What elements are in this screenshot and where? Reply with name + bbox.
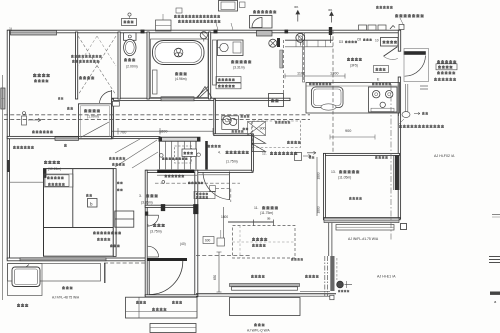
label boxed notes washroom xyxy=(216,77,241,89)
label yoshitsu door xyxy=(13,144,67,148)
svg-text:1800: 1800 xyxy=(317,172,321,179)
label IPA a xyxy=(294,5,298,9)
dim 900 b xyxy=(345,129,351,133)
fan washroom xyxy=(269,39,277,47)
svg-text:(3.31m): (3.31m) xyxy=(233,66,245,70)
label sink note xyxy=(309,83,331,85)
wall corridor south xyxy=(112,137,160,139)
wall genkan north y206 xyxy=(145,205,197,207)
cabinet boxes north xyxy=(359,25,405,31)
bath corner door xyxy=(197,87,209,98)
label terrace W code xyxy=(52,296,80,300)
label bathroom xyxy=(175,72,187,81)
window-frame dining east dark xyxy=(394,155,400,190)
label D3 cabinet xyxy=(339,40,357,44)
pipe dashed kitchen col xyxy=(332,30,334,153)
svg-text:(3F5): (3F5) xyxy=(350,64,358,68)
post hall-genkan a xyxy=(161,204,165,211)
dim 700 xyxy=(120,131,126,135)
wall corridor west x112 xyxy=(112,99,114,137)
svg-text:12.: 12. xyxy=(262,152,267,156)
butsuma room box xyxy=(79,104,112,139)
label closet shelf note a xyxy=(71,55,102,57)
svg-text:D3: D3 xyxy=(339,40,343,44)
closet small labels xyxy=(117,182,123,191)
svg-text:AJ IN/FL-#1.75 W/A: AJ IN/FL-#1.75 W/A xyxy=(348,237,379,241)
label oshiire xyxy=(79,77,94,79)
butsuma door arc xyxy=(100,90,112,103)
label hall xyxy=(139,194,158,205)
dashes south y255 xyxy=(196,255,250,257)
label shelf note hall xyxy=(162,175,229,184)
label washroom xyxy=(231,60,251,69)
svg-text:700: 700 xyxy=(120,131,126,135)
dashes porch right xyxy=(104,263,146,283)
svg-text:1100: 1100 xyxy=(297,72,305,76)
column lines dining SW xyxy=(329,223,332,256)
svg-text:(3.75m): (3.75m) xyxy=(150,230,162,234)
living south dim line xyxy=(228,220,274,227)
label room1B xyxy=(44,161,61,171)
svg-text:650: 650 xyxy=(213,275,217,281)
svg-text:(2.00m): (2.00m) xyxy=(126,65,138,69)
label arrow east xyxy=(414,112,428,115)
window living south xyxy=(230,284,300,291)
dimension line kitchen xyxy=(285,74,345,79)
svg-text:0B: 0B xyxy=(267,217,271,221)
arrow dining NW xyxy=(307,151,316,158)
toilet xyxy=(124,33,137,56)
cabinet column x302 xyxy=(303,33,305,82)
label alumi note 2 xyxy=(178,20,220,22)
stair void dashed box xyxy=(175,146,192,163)
svg-text:900: 900 xyxy=(260,127,266,131)
fan bath xyxy=(200,32,207,42)
svg-text:10: 10 xyxy=(375,39,379,43)
washroom vanity xyxy=(218,40,244,56)
pipe dashed kitchen col2 xyxy=(303,42,305,82)
label backdoor 4 xyxy=(434,78,456,80)
window wall y137 xyxy=(55,137,79,141)
label heat pump xyxy=(253,11,276,13)
label C8 xyxy=(357,38,379,43)
wall bath west x148 xyxy=(147,32,149,99)
wall toilet west x119 xyxy=(118,32,120,99)
svg-text:4.: 4. xyxy=(218,151,221,155)
svg-text:1800: 1800 xyxy=(317,206,321,213)
wall hall east x196 xyxy=(195,170,198,296)
svg-text:3.: 3. xyxy=(139,194,142,198)
butsuma diagonal xyxy=(81,122,110,138)
label room 1A xyxy=(33,74,50,82)
label pantry note2 xyxy=(376,6,393,8)
label porch note a xyxy=(136,301,146,303)
kitchen sink oval xyxy=(321,104,336,110)
backdoor porch outline xyxy=(404,49,429,82)
property dashdot east xyxy=(390,84,392,240)
study dashed box xyxy=(253,121,301,148)
terrace west slab xyxy=(8,264,101,296)
svg-text:(10.15m): (10.15m) xyxy=(48,167,61,171)
label hall note2 xyxy=(188,182,203,184)
wall dining west x324 xyxy=(324,153,326,219)
wall outer north xyxy=(8,30,400,33)
bath heater box xyxy=(156,14,172,31)
folding door V xyxy=(198,87,213,99)
svg-text:AJ Hi-F02 /A: AJ Hi-F02 /A xyxy=(434,154,455,158)
stove xyxy=(369,87,398,112)
label backdoor 1 xyxy=(437,61,456,63)
door-bar genkan entrance xyxy=(148,258,188,261)
wall west-block south xyxy=(7,258,146,261)
svg-text:600: 600 xyxy=(205,239,211,243)
top small box xyxy=(176,8,182,13)
svg-text:1800: 1800 xyxy=(159,130,167,134)
left property line xyxy=(2,75,4,300)
wall bath east x210 xyxy=(209,32,211,99)
label terrace W b xyxy=(17,304,28,306)
dim vline genkan 650 xyxy=(217,252,222,292)
label E xyxy=(377,78,380,82)
svg-text:11.: 11. xyxy=(254,206,259,210)
backdoor step lines xyxy=(420,86,428,89)
wall east upper x400 xyxy=(398,30,400,51)
label closet shelf note b xyxy=(72,60,99,62)
wall study west x253 xyxy=(252,134,254,171)
hall closet arcs xyxy=(148,215,159,257)
dim 900 a xyxy=(243,127,266,131)
leader pantry xyxy=(400,18,404,26)
deck dining south xyxy=(336,225,394,231)
wic closet boxes xyxy=(115,211,134,227)
understair diagonal hatch xyxy=(115,139,158,168)
label hot wire xyxy=(32,131,53,133)
svg-text:IPA: IPA xyxy=(294,5,298,9)
svg-text:1): 1) xyxy=(9,27,12,31)
kotatsu inner dashes xyxy=(233,226,296,259)
label south note a xyxy=(251,275,265,277)
backdoor leaf xyxy=(404,51,426,55)
label toilet room xyxy=(124,59,138,69)
access panel X xyxy=(248,122,266,136)
label eff width a xyxy=(109,157,125,165)
label top-left tick xyxy=(9,27,12,31)
dim 1800 dining b xyxy=(317,206,321,213)
label alumi note 1 xyxy=(174,15,220,17)
wall bath-row south xyxy=(112,98,290,100)
pipe dashed row 1 xyxy=(4,114,310,116)
label kitchen panel xyxy=(372,83,391,85)
svg-text:(11.75m): (11.75m) xyxy=(260,211,273,215)
genkan porch slab xyxy=(126,297,198,318)
garden tap xyxy=(330,281,352,300)
stair note row xyxy=(160,153,201,160)
svg-text:C8: C8 xyxy=(357,38,361,42)
dim 1300 xyxy=(330,72,338,76)
wall kitchen cabinets y40 xyxy=(285,40,333,47)
backdoor porch lines xyxy=(406,84,408,112)
window corridor y99 xyxy=(161,97,194,101)
right edge tick mid xyxy=(492,215,500,218)
label glass note SE xyxy=(398,119,444,127)
marker box B xyxy=(86,194,97,207)
wall storage north y134 xyxy=(214,134,253,136)
label backdoor 3 xyxy=(437,72,455,74)
dim line kitchen south xyxy=(330,135,375,140)
stair note box xyxy=(182,149,197,157)
label wic xyxy=(93,232,121,247)
bifold door triangles xyxy=(252,136,266,152)
label south note b xyxy=(305,275,319,277)
oshiire box xyxy=(269,94,284,107)
wall stair east dark xyxy=(205,141,208,170)
riser marks x330 xyxy=(329,27,332,43)
washroom door wall piece xyxy=(213,40,217,85)
heat-pump vent xyxy=(257,31,273,37)
svg-text:1800: 1800 xyxy=(221,215,228,219)
bathroom inner outline xyxy=(151,39,209,98)
svg-text:(1.75m): (1.75m) xyxy=(226,160,238,164)
sill line living south xyxy=(196,291,336,296)
kitchen counter xyxy=(306,83,400,114)
label senmen xyxy=(241,115,250,117)
backdoor arc xyxy=(405,56,426,77)
future partition box xyxy=(44,174,73,187)
label rail note a xyxy=(375,156,388,158)
post pair living south b xyxy=(330,256,337,291)
dim vline dining west xyxy=(316,157,318,216)
arrow vent b xyxy=(330,12,334,23)
dim 1800 corridor xyxy=(159,130,167,134)
wall genkan south xyxy=(145,295,198,297)
wall protrusion butsuma NE xyxy=(113,101,120,106)
dim 650 xyxy=(213,275,217,281)
svg-text:13.: 13. xyxy=(331,170,336,174)
leader alumi xyxy=(216,23,233,30)
svg-text:(11.05m): (11.05m) xyxy=(338,176,351,180)
post hall west xyxy=(145,212,148,216)
label study xyxy=(262,152,297,156)
svg-text:(40): (40) xyxy=(180,242,186,246)
label genkan xyxy=(147,224,165,234)
study inner marks xyxy=(251,122,311,161)
kotatsu dashed box xyxy=(233,226,296,259)
label handrail xyxy=(208,145,221,147)
label range box xyxy=(374,66,389,73)
label genkan door xyxy=(152,308,166,310)
svg-text:1.: 1. xyxy=(147,224,150,228)
label rail note b xyxy=(349,197,362,199)
backdoor step xyxy=(399,112,411,118)
washing machine xyxy=(219,1,246,12)
dim 1800 hall xyxy=(221,215,228,219)
pipe dashed row 2 xyxy=(4,119,310,121)
stairs xyxy=(160,141,197,169)
label understair xyxy=(218,151,249,164)
closet line 1B xyxy=(9,181,43,183)
wall dining south y219 xyxy=(324,218,401,220)
bathtub xyxy=(153,41,205,65)
svg-text:(4.96m): (4.96m) xyxy=(175,77,187,81)
pantry box xyxy=(381,38,399,47)
terrace sink tub xyxy=(12,265,40,287)
post small dining SE xyxy=(401,224,407,230)
svg-text:(1.00m): (1.00m) xyxy=(87,115,99,119)
label IPA b xyxy=(328,8,332,12)
label kitchen xyxy=(347,58,362,67)
window north bedroom1A xyxy=(11,30,57,35)
label kotatsu note xyxy=(291,258,303,260)
window dining south xyxy=(324,218,399,223)
dim 600 box xyxy=(180,230,225,246)
hall door arc xyxy=(203,172,230,201)
svg-text:AJ W/FL-Q W/A: AJ W/FL-Q W/A xyxy=(247,329,271,333)
dim 1100 xyxy=(297,72,305,76)
label hall boxed note xyxy=(194,191,215,198)
label terrace S xyxy=(247,324,271,333)
toilet label box xyxy=(122,13,137,26)
post hall-genkan b xyxy=(193,204,198,214)
heat-pump unit xyxy=(250,16,273,29)
label dining xyxy=(331,170,359,180)
post pair living south a xyxy=(325,256,328,296)
genkan door arc xyxy=(149,261,183,295)
arrow vent a xyxy=(296,11,300,22)
label AJ code NE xyxy=(434,154,455,158)
label AJ code SE xyxy=(377,275,396,279)
window west bedroom1A xyxy=(1,88,5,109)
svg-text:AJ Hi-E1 /A: AJ Hi-E1 /A xyxy=(377,275,396,279)
label cross xyxy=(232,130,244,132)
kitchen sink xyxy=(312,87,344,108)
bedroom1B box xyxy=(43,168,113,256)
genkan step xyxy=(150,324,196,333)
bedroom1A outlet symbol xyxy=(22,112,42,126)
label wire box xyxy=(287,141,301,143)
pantry door diagonal xyxy=(384,47,398,60)
svg-text:IPA: IPA xyxy=(328,8,332,12)
label steel xyxy=(275,121,290,123)
right edge marks xyxy=(489,257,500,305)
label pantry shelf note xyxy=(395,14,424,16)
label living xyxy=(254,206,278,221)
corridor washbasin xyxy=(222,116,239,130)
terrace south slab xyxy=(230,298,301,316)
wall hall west x146 xyxy=(145,170,147,296)
wall washbasin west x214 xyxy=(214,99,216,135)
wall kitchen east x399 xyxy=(398,77,400,219)
label porch note b xyxy=(172,301,182,303)
dim 1800 dining a xyxy=(317,172,321,179)
svg-text:(3.85m): (3.85m) xyxy=(141,201,153,205)
dim vline hall 1800 xyxy=(223,207,225,238)
dimension line corridor xyxy=(112,128,213,135)
wall dining north y154 xyxy=(324,153,400,155)
svg-text:1300: 1300 xyxy=(330,72,338,76)
tv-board dark bar xyxy=(157,170,197,176)
label radio xyxy=(58,97,73,109)
label future partition xyxy=(47,177,65,186)
svg-text:900: 900 xyxy=(345,129,351,133)
wall bedroom divider y137 xyxy=(7,136,113,138)
wall washroom east dashed xyxy=(277,38,284,95)
closet cross dashed xyxy=(78,36,116,95)
label terrace W a xyxy=(62,287,73,289)
wall closet east x114 xyxy=(113,169,116,257)
wall hall north y171 xyxy=(146,170,253,172)
dashes hall y183 xyxy=(155,183,240,202)
label kotatsu xyxy=(252,238,267,246)
label butsuma xyxy=(84,109,100,118)
wall outer west xyxy=(7,30,9,259)
label AJ code dining xyxy=(348,237,379,241)
wall closet west x76 xyxy=(76,32,78,99)
label backdoor 2 xyxy=(436,64,457,70)
bath bench xyxy=(153,70,158,94)
fan kitchen xyxy=(296,33,305,45)
stair top thick bar xyxy=(159,137,200,141)
posts north wall xyxy=(141,30,289,34)
post west wall 1B xyxy=(7,160,10,172)
window west-block south xyxy=(20,258,106,261)
svg-text:AJ F/FL-48 75 W/A: AJ F/FL-48 75 W/A xyxy=(52,296,80,300)
